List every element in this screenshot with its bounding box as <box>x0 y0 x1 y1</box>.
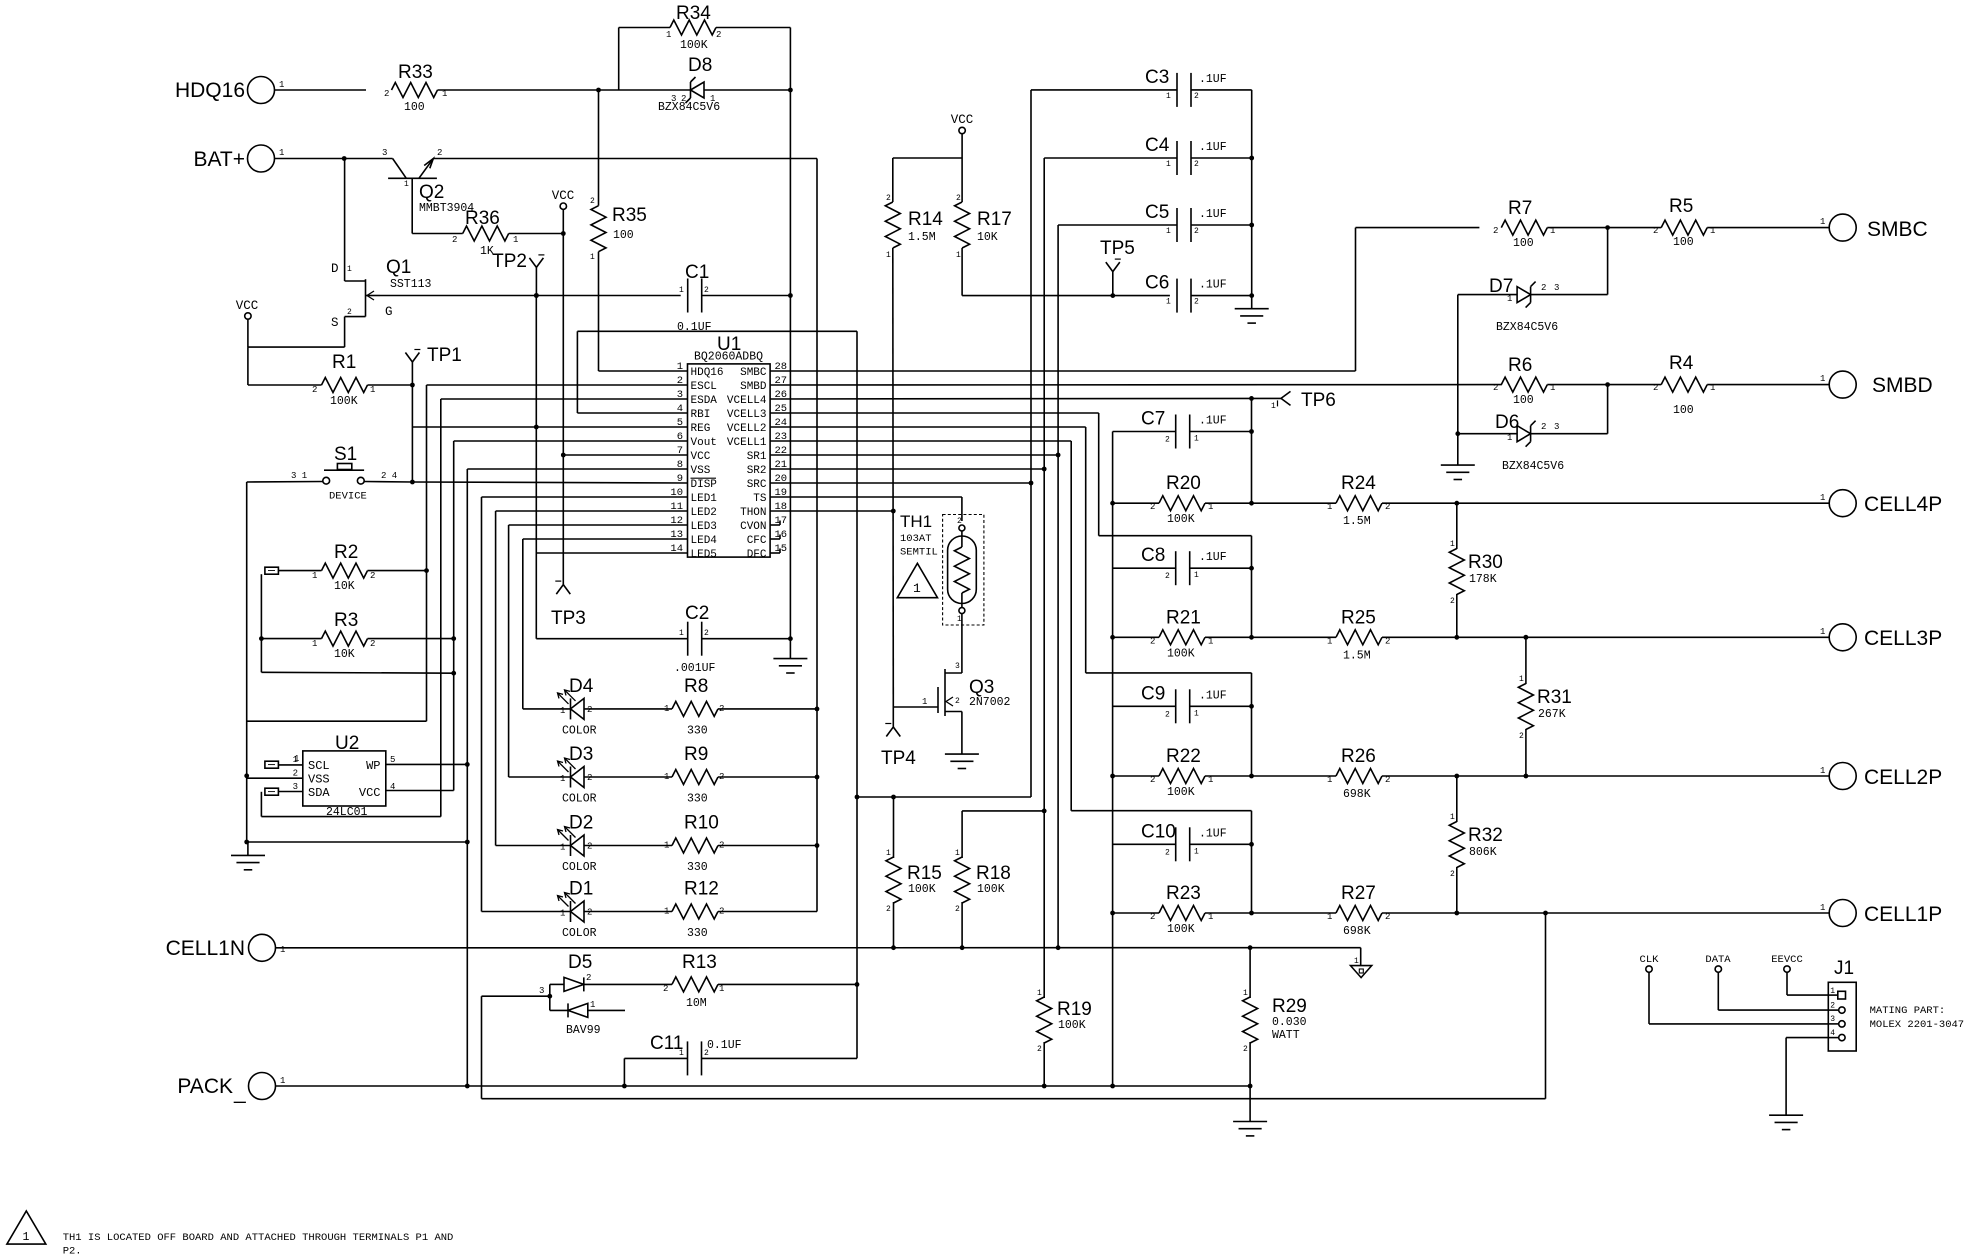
test point TP1 <box>405 345 461 366</box>
wire R29 top <box>1249 948 1251 998</box>
ground (D7 D6) <box>1441 465 1475 479</box>
svg-text:100K: 100K <box>977 883 1005 896</box>
svg-text:R6: R6 <box>1508 355 1532 376</box>
test point TP3 <box>551 581 586 629</box>
svg-text:3: 3 <box>1830 1015 1835 1024</box>
node CELL1P railB junction <box>1543 911 1548 916</box>
node PACK rail junction <box>1110 1084 1115 1089</box>
svg-text:Q2: Q2 <box>419 182 444 203</box>
ground (U2 area) <box>231 842 265 870</box>
svg-text:R24: R24 <box>1341 473 1376 494</box>
svg-text:COLOR: COLOR <box>562 725 597 738</box>
wire D7D6 anode rail <box>1457 295 1459 466</box>
svg-text:1: 1 <box>1327 502 1332 512</box>
diode D5 upper <box>550 973 592 991</box>
wire Q2 emitter to LED bus <box>433 158 817 160</box>
wire VSS lead <box>247 777 303 779</box>
wire D3 row left <box>509 776 571 778</box>
resistor R8 <box>664 676 724 738</box>
resistor R6 <box>1493 355 1555 407</box>
wire source to VCC corner <box>248 346 345 348</box>
wire C6 right lead <box>1191 295 1252 297</box>
svg-text:R31: R31 <box>1537 687 1572 708</box>
wire R35 bottom lead to pin1 corner <box>598 252 600 371</box>
svg-text:R25: R25 <box>1341 607 1376 628</box>
wire R15 top row <box>857 796 1031 798</box>
svg-text:3: 3 <box>293 782 298 792</box>
capacitor C6 <box>1145 273 1227 313</box>
svg-text:1: 1 <box>1820 627 1825 637</box>
node LED5 riser top junction <box>534 293 539 298</box>
resistor R20 <box>1150 473 1213 526</box>
svg-text:1: 1 <box>1166 227 1171 236</box>
note text <box>63 1232 454 1255</box>
net CLK <box>1640 954 1829 1024</box>
svg-text:1: 1 <box>922 697 927 707</box>
svg-text:1: 1 <box>1194 571 1199 580</box>
wire U1 pin14 LED5 <box>536 552 687 554</box>
svg-text:1: 1 <box>664 841 669 851</box>
svg-text:PACK: PACK <box>177 1075 233 1098</box>
svg-text:1: 1 <box>560 706 565 716</box>
node RBI R15row junction <box>855 795 860 800</box>
svg-text:2: 2 <box>1493 226 1498 236</box>
svg-text:2: 2 <box>370 571 375 581</box>
svg-text:2: 2 <box>704 1049 709 1058</box>
node R1 TP1 junction <box>410 383 415 388</box>
wire D5 junction left drop <box>481 996 483 1098</box>
node HDQ16-R35 junction <box>596 88 601 93</box>
wire D1 row left <box>482 911 571 913</box>
node R24 junction <box>1454 501 1459 506</box>
svg-text:C9: C9 <box>1141 683 1165 704</box>
wire VCELL1 staircase <box>1071 441 1251 811</box>
node VSS row U2 junction <box>244 773 249 778</box>
svg-text:1: 1 <box>1327 636 1332 646</box>
wire R27 right lead <box>1382 912 1829 914</box>
stub U1 pin17 CVON <box>770 521 780 526</box>
svg-text:2: 2 <box>1194 92 1199 101</box>
node R31 bottom junction <box>1524 774 1529 779</box>
svg-text:1: 1 <box>1519 675 1524 684</box>
ground (R29) <box>1233 1122 1267 1136</box>
svg-text:100K: 100K <box>1167 923 1195 936</box>
ground (C3-C6) <box>1235 309 1269 323</box>
wire R7 left lead <box>1356 227 1480 229</box>
svg-text:2: 2 <box>704 629 709 638</box>
svg-text:C3: C3 <box>1145 67 1169 88</box>
svg-text:2: 2 <box>681 94 686 104</box>
svg-text:SST113: SST113 <box>390 278 432 291</box>
node R20 rail junction <box>1249 501 1254 506</box>
svg-text:3 1: 3 1 <box>291 471 307 481</box>
svg-text:R2: R2 <box>334 542 358 563</box>
svg-text:2: 2 <box>293 769 298 779</box>
node C6 rail junction <box>1249 293 1254 298</box>
capacitor C7 <box>1141 409 1227 449</box>
svg-text:VCC: VCC <box>691 451 711 463</box>
svg-text:1: 1 <box>294 754 299 764</box>
svg-text:LED1: LED1 <box>691 493 718 505</box>
capacitor C2 <box>674 603 716 675</box>
node LED5 riser REG junction <box>534 425 539 430</box>
wire C11 left <box>624 1058 687 1086</box>
wire C9 right lead <box>1190 705 1252 707</box>
svg-text:C6: C6 <box>1145 273 1169 294</box>
svg-text:1: 1 <box>1243 989 1248 998</box>
svg-text:2: 2 <box>1037 1045 1042 1054</box>
wire U1 pin28 SMBC <box>770 370 1355 372</box>
wire D8 node down to C1 row <box>789 90 791 296</box>
zener diode D8 <box>658 55 720 114</box>
svg-text:330: 330 <box>687 725 708 738</box>
node SR1 junction <box>1056 453 1061 458</box>
svg-text:R12: R12 <box>684 879 719 900</box>
wire VSS riser <box>466 469 468 1086</box>
svg-text:HDQ16: HDQ16 <box>691 367 724 379</box>
wire RBI riser <box>576 331 578 413</box>
wire VCC vertical to TP3 <box>562 455 564 585</box>
wire R36 to VCC node <box>509 233 564 235</box>
svg-text:2: 2 <box>1150 912 1155 922</box>
wire R22 left lead <box>1113 775 1159 777</box>
wire U1 pin24 VCELL2 <box>770 426 1086 428</box>
node R31 top junction <box>1524 635 1529 640</box>
svg-text:1: 1 <box>666 30 671 40</box>
wire R25 right lead <box>1382 636 1829 638</box>
resistor R34 <box>666 3 721 52</box>
wire D6 row <box>1458 433 1517 435</box>
svg-text:2: 2 <box>587 842 592 852</box>
wire LED anode bus <box>816 159 818 912</box>
wire ESDA bottom row <box>261 816 440 818</box>
wire VCELL2 staircase <box>1086 427 1252 673</box>
net flag SCL <box>265 754 300 768</box>
svg-text:2: 2 <box>955 697 960 706</box>
wire R3 right <box>368 638 454 640</box>
svg-text:2: 2 <box>370 639 375 649</box>
resistor R14 <box>885 194 943 260</box>
wire U2 VCC lead <box>386 790 454 792</box>
label mating part <box>1870 1005 1965 1031</box>
svg-text:Q3: Q3 <box>969 677 994 698</box>
svg-text:2: 2 <box>1194 298 1199 307</box>
svg-text:100K: 100K <box>330 395 358 408</box>
wire R19 bottom <box>1043 1042 1045 1086</box>
svg-text:0.1UF: 0.1UF <box>707 1039 742 1052</box>
svg-text:2: 2 <box>1194 160 1199 169</box>
svg-text:1: 1 <box>312 639 317 649</box>
wire R30 leads <box>1456 503 1458 637</box>
svg-text:R34: R34 <box>676 3 711 24</box>
svg-text:CELL4P: CELL4P <box>1864 493 1942 516</box>
svg-text:R26: R26 <box>1341 746 1376 767</box>
svg-text:2: 2 <box>452 235 457 245</box>
svg-text:1: 1 <box>1820 493 1825 503</box>
wire U1 pin13 LED4 <box>523 538 688 540</box>
node R23 rail junction <box>1249 911 1254 916</box>
node SR2 junction <box>1042 467 1047 472</box>
wire VCELL4 rail seg <box>1251 398 1253 503</box>
wire D4 row left <box>523 708 571 710</box>
terminal CELL1P <box>1820 900 1942 927</box>
svg-text:R10: R10 <box>684 813 719 834</box>
svg-text:SEMTIL: SEMTIL <box>900 547 938 559</box>
wire D7 row <box>1458 294 1517 296</box>
svg-text:.1UF: .1UF <box>1199 689 1227 702</box>
capacitor C4 <box>1145 135 1227 175</box>
svg-text:1: 1 <box>679 286 684 295</box>
svg-text:DATA: DATA <box>1705 954 1731 966</box>
node D8 right junction <box>788 88 793 93</box>
wire U1 pin9 DISP row <box>412 482 687 483</box>
resistor R33 <box>384 62 447 114</box>
node R6R4 D6 junction <box>1605 382 1610 387</box>
svg-text:SMBD: SMBD <box>1872 374 1933 397</box>
svg-text:C4: C4 <box>1145 135 1170 156</box>
wire C1 node down to C2 row <box>789 296 791 639</box>
wire C3 left <box>1031 90 1177 797</box>
svg-text:THON: THON <box>740 507 766 519</box>
wire R20 left lead <box>1113 502 1159 504</box>
node VCC pin7 junction <box>561 453 566 458</box>
wire D2 to R10 <box>584 845 672 847</box>
svg-text:1: 1 <box>1450 540 1455 549</box>
wire U1 pin3 ESDA <box>441 398 688 400</box>
wire R18 top lead <box>961 811 963 858</box>
wire R22 right lead <box>1205 775 1336 777</box>
node R20 left junction <box>1110 501 1115 506</box>
stub U1 pin16 CFC <box>770 535 780 540</box>
svg-text:G: G <box>385 305 393 319</box>
wire R17 bottom <box>961 248 963 296</box>
svg-text:1: 1 <box>1194 847 1199 856</box>
svg-text:.001UF: .001UF <box>674 662 716 675</box>
wire U1 pin25 VCELL3 <box>770 412 1099 414</box>
svg-text:BQ2060ADBQ: BQ2060ADBQ <box>694 351 763 364</box>
svg-text:698K: 698K <box>1343 788 1371 801</box>
svg-text:R7: R7 <box>1508 198 1532 219</box>
node R23 left junction <box>1110 911 1115 916</box>
svg-text:1: 1 <box>1820 217 1825 227</box>
svg-text:CLK: CLK <box>1640 954 1660 966</box>
wire U1 pin12 LED3 <box>509 524 688 526</box>
svg-text:SMBC: SMBC <box>740 367 767 379</box>
svg-text:MOLEX 2201-3047: MOLEX 2201-3047 <box>1870 1019 1965 1031</box>
svg-text:3: 3 <box>1554 422 1559 432</box>
wire U1 pin5 REG <box>412 426 687 428</box>
svg-text:100K: 100K <box>1167 786 1195 799</box>
wire C10 right lead <box>1190 843 1252 845</box>
node CELL1N R18 junction <box>960 945 965 950</box>
node PACK VSS junction <box>465 1084 470 1089</box>
wire C6 row <box>962 295 1170 297</box>
svg-text:WATT: WATT <box>1272 1029 1300 1042</box>
svg-text:2: 2 <box>437 148 442 158</box>
svg-text:R15: R15 <box>907 863 942 884</box>
wire VCC corner down to R1 <box>247 347 249 385</box>
svg-text:1: 1 <box>560 843 565 853</box>
wire LED4 riser <box>522 539 524 709</box>
svg-text:2: 2 <box>1830 1002 1835 1011</box>
terminal HDQ16 <box>175 77 366 104</box>
wire R12 right <box>718 911 817 913</box>
svg-text:2N7002: 2N7002 <box>969 696 1011 709</box>
svg-text:2: 2 <box>1493 383 1498 393</box>
svg-text:1: 1 <box>956 251 961 260</box>
terminal BAT+ <box>193 145 392 172</box>
node D5 common junction <box>539 986 552 999</box>
svg-text:EEVCC: EEVCC <box>1771 954 1803 966</box>
wire Q2 base down <box>411 178 413 233</box>
LED D1 <box>558 879 597 941</box>
svg-text:2: 2 <box>1653 383 1658 393</box>
wire R15 top lead <box>893 797 895 858</box>
wire R14 bottom / THON riser <box>892 248 895 707</box>
svg-text:2: 2 <box>1150 636 1155 646</box>
svg-text:1: 1 <box>1507 433 1512 443</box>
node C1 right junction <box>788 293 793 298</box>
wire R34 right vertical <box>716 28 790 91</box>
wire U1 pin10 LED1 <box>482 496 688 498</box>
wire bottom rail B <box>482 1098 1546 1100</box>
svg-text:10K: 10K <box>977 231 998 244</box>
wire Vout riser <box>453 441 455 791</box>
svg-text:C1: C1 <box>685 262 709 283</box>
test point TP2 <box>492 251 544 296</box>
resistor R22 <box>1150 746 1213 799</box>
svg-text:698K: 698K <box>1343 925 1371 938</box>
wire VCELL3 staircase <box>1099 413 1252 536</box>
wire C4 bus down <box>1043 469 1045 811</box>
svg-text:R27: R27 <box>1341 883 1376 904</box>
capacitor C3 <box>1145 67 1227 107</box>
wire R9 right <box>718 776 817 778</box>
wire R10 right <box>718 845 817 847</box>
svg-text:2: 2 <box>590 197 595 206</box>
svg-text:2: 2 <box>1194 227 1199 236</box>
transistor Q3 <box>938 662 1011 716</box>
wire R1 left lead <box>248 384 322 386</box>
svg-text:1: 1 <box>590 1000 595 1010</box>
svg-text:1: 1 <box>1820 766 1825 776</box>
resistor R31 <box>1518 675 1571 741</box>
wire C4 right lead <box>1191 157 1252 159</box>
svg-text:R33: R33 <box>398 62 433 83</box>
capacitor C5 <box>1145 202 1227 242</box>
wire S1 left <box>247 481 323 484</box>
svg-text:D: D <box>331 262 339 276</box>
svg-text:VCELL2: VCELL2 <box>727 423 767 435</box>
wire R32 leads <box>1456 776 1458 913</box>
svg-text:100K: 100K <box>1167 647 1195 660</box>
svg-text:1: 1 <box>347 265 352 274</box>
wire R23 left lead <box>1113 912 1159 914</box>
svg-text:CELL2P: CELL2P <box>1864 766 1942 789</box>
wire U1 pin19 TS <box>770 496 962 498</box>
svg-text:24LC01: 24LC01 <box>326 806 368 819</box>
wire R2 right <box>368 570 427 572</box>
svg-text:1: 1 <box>886 849 891 858</box>
svg-text:R32: R32 <box>1468 825 1503 846</box>
resistor R29 <box>1243 989 1307 1054</box>
svg-text:R9: R9 <box>684 744 708 765</box>
wire VCELL3 rail seg <box>1251 536 1253 638</box>
wire U1 pin22 SR1 <box>770 454 1058 456</box>
svg-text:.1UF: .1UF <box>1199 551 1227 564</box>
svg-text:R4: R4 <box>1669 353 1694 374</box>
wire U1 pin2 ESCL <box>427 384 688 386</box>
svg-text:.1UF: .1UF <box>1199 208 1227 221</box>
wire D3 to R9 <box>584 776 672 778</box>
wire U1 pin21 SR2 <box>770 468 1044 470</box>
wire R15 bottom <box>893 902 895 948</box>
svg-text:R8: R8 <box>684 676 708 697</box>
resistor R27 <box>1327 883 1390 938</box>
svg-text:CELL3P: CELL3P <box>1864 627 1942 650</box>
wire R13 right <box>718 983 857 985</box>
wire D2 row left <box>496 845 571 847</box>
svg-text:COLOR: COLOR <box>562 927 597 940</box>
IC U1 BQ2060ADBQ box <box>688 334 771 557</box>
wire R19 top lead <box>1043 811 1045 998</box>
node SRC junction <box>1029 481 1034 486</box>
ground (Q3) <box>945 754 979 768</box>
label D5 <box>566 952 601 1037</box>
svg-text:SDA: SDA <box>308 786 330 800</box>
wire LED5-C2 riser <box>535 296 537 639</box>
ground (C2) <box>773 639 807 673</box>
terminal CELL4P <box>1820 490 1942 517</box>
switch S1 <box>291 444 397 503</box>
wire C7 left lead <box>1113 431 1176 433</box>
wire C4 left <box>1044 158 1177 469</box>
note flag 1 (TH1) <box>897 563 937 597</box>
stub U1 pin15 DFC <box>770 549 780 554</box>
svg-text:SCL: SCL <box>308 759 330 773</box>
svg-text:R30: R30 <box>1468 552 1503 573</box>
svg-text:1: 1 <box>1354 957 1359 966</box>
wire LED3 riser <box>508 525 510 777</box>
wire S1 right <box>364 481 412 484</box>
wire WP lead <box>386 763 468 765</box>
svg-text:1: 1 <box>1166 92 1171 101</box>
svg-text:COLOR: COLOR <box>562 793 597 806</box>
wire Q3 source to gnd <box>961 712 963 755</box>
svg-text:BAT+: BAT+ <box>193 148 245 171</box>
svg-text:1.5M: 1.5M <box>908 231 936 244</box>
wire R2 left <box>278 570 321 572</box>
svg-text:LED2: LED2 <box>691 507 717 519</box>
wire U1 pin20 SRC <box>770 482 1031 484</box>
svg-text:VCELL4: VCELL4 <box>727 395 767 407</box>
svg-text:1: 1 <box>1194 709 1199 718</box>
resistor R1 <box>312 352 375 408</box>
svg-text:100K: 100K <box>908 883 936 896</box>
svg-text:SMBC: SMBC <box>1867 218 1928 241</box>
resistor R4 <box>1653 353 1715 417</box>
svg-text:LED5: LED5 <box>691 549 717 561</box>
svg-text:4: 4 <box>1830 1029 1835 1038</box>
svg-text:RBI: RBI <box>691 409 711 421</box>
svg-text:SRC: SRC <box>747 479 767 491</box>
resistor R24 <box>1327 473 1390 528</box>
wire Q1 source down <box>344 317 346 348</box>
node PACK R29 junction <box>1248 1084 1253 1089</box>
svg-text:BZX84C5V6: BZX84C5V6 <box>1502 460 1564 473</box>
wire D8 to R34 right <box>704 89 790 91</box>
wire R14 top <box>892 158 894 202</box>
